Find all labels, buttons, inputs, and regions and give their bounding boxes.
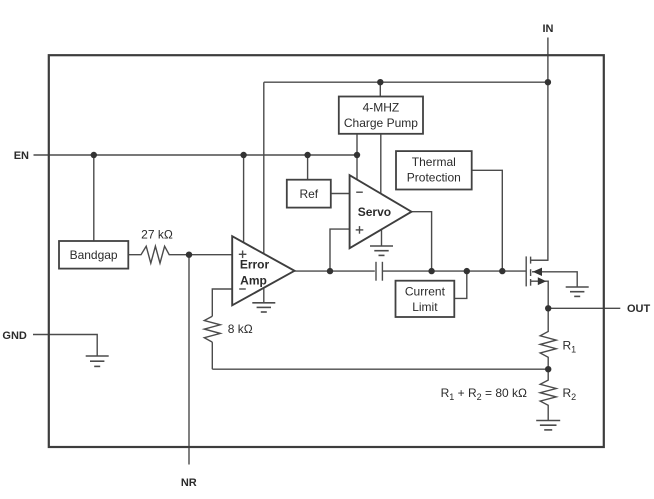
- wire error amp ground stem: [263, 289, 265, 303]
- svg-text:Thermal: Thermal: [412, 155, 456, 169]
- node dot EN-error amp: [240, 152, 246, 158]
- svg-text:R1 + R2 = 80 kΩ: R1 + R2 = 80 kΩ: [441, 386, 527, 402]
- op-amp U2 Servo: [350, 175, 412, 248]
- svg-text:GND: GND: [2, 330, 27, 342]
- wire GND lead: [33, 335, 97, 357]
- wire error amp inverting branch: [212, 289, 232, 316]
- ground R2: [536, 421, 560, 430]
- wire servo output: [412, 212, 432, 271]
- svg-text:EN: EN: [14, 150, 29, 162]
- svg-text:Charge Pump: Charge Pump: [344, 116, 418, 130]
- ground error amp: [252, 303, 275, 312]
- svg-text:IN: IN: [543, 23, 554, 35]
- svg-text:Amp: Amp: [240, 274, 267, 288]
- node NR: [186, 252, 192, 258]
- node dot gate-thermal: [499, 268, 505, 274]
- node dot gate-current limit: [464, 268, 470, 274]
- svg-text:Protection: Protection: [407, 171, 461, 185]
- node dot gate-servo plus: [327, 268, 333, 274]
- wire servo ground stem: [381, 230, 383, 246]
- wire current limit link: [454, 271, 467, 298]
- wire charge pump top connection: [379, 82, 381, 97]
- svg-text:Servo: Servo: [358, 205, 391, 219]
- node dot gate-servo out: [428, 268, 434, 274]
- node OUT: [545, 305, 551, 311]
- svg-text:OUT: OUT: [627, 303, 651, 315]
- ground GND pin: [86, 356, 109, 366]
- wire EN lead: [34, 154, 358, 156]
- ground servo: [370, 246, 393, 255]
- Ref block: [287, 180, 331, 208]
- wire top supply rail: [264, 81, 548, 83]
- wire gate drive left: [295, 270, 375, 272]
- node dot rail-IN: [545, 79, 551, 85]
- svg-text:NR: NR: [181, 477, 197, 489]
- wire charge pump to EN and servo: [356, 134, 358, 185]
- wire MOSFET body to ground: [532, 272, 577, 287]
- boundary box: [49, 55, 604, 447]
- wire error-amp enable drop: [243, 155, 245, 247]
- wire servo non-inverting input branch: [330, 229, 351, 271]
- wire supply drop to error amp: [263, 82, 265, 258]
- wire MOSFET drain to OUT node: [530, 281, 548, 308]
- node feedback: [545, 366, 551, 372]
- node dot EN-charge pump: [354, 152, 360, 158]
- svg-text:Bandgap: Bandgap: [70, 248, 118, 262]
- wire OUT lead: [548, 307, 620, 309]
- wire feedback line: [212, 368, 548, 370]
- node dot rail-charge pump: [377, 79, 383, 85]
- Thermal Protection block: [396, 151, 472, 189]
- wire gate drive right: [383, 270, 526, 272]
- transistor Q1 PMOS pass element: [526, 256, 548, 286]
- resistor 8k: [204, 316, 220, 342]
- 4-MHZ Charge Pump block: [339, 97, 423, 134]
- svg-text:Ref: Ref: [299, 187, 318, 201]
- wire ref enable drop: [307, 155, 309, 180]
- wire charge pump to servo right: [380, 134, 382, 199]
- resistor 27k: [128, 246, 232, 263]
- op-amp U1 Error Amp: [232, 236, 294, 305]
- wire NR line: [188, 255, 190, 465]
- resistor R1: [540, 308, 556, 369]
- wire ref to servo inverting input: [331, 193, 351, 195]
- resistor R2: [540, 369, 556, 420]
- svg-text:4-MHZ: 4-MHZ: [363, 100, 400, 114]
- Bandgap block: [59, 241, 128, 269]
- ground MOSFET body: [566, 287, 589, 296]
- svg-text:Error: Error: [240, 258, 270, 272]
- svg-text:Limit: Limit: [412, 300, 438, 314]
- wire thermal protection link: [472, 170, 503, 271]
- node dot EN-bandgap: [91, 152, 97, 158]
- node dot EN-ref: [304, 152, 310, 158]
- wire 8k to feedback: [211, 342, 213, 369]
- Current Limit block: [396, 281, 455, 317]
- capacitor series in gate line: [376, 262, 382, 281]
- svg-text:27 kΩ: 27 kΩ: [141, 228, 173, 242]
- svg-text:Current: Current: [405, 285, 446, 299]
- svg-text:8 kΩ: 8 kΩ: [228, 322, 253, 336]
- wire IN line: [530, 38, 548, 261]
- wire bandgap enable drop: [93, 155, 95, 242]
